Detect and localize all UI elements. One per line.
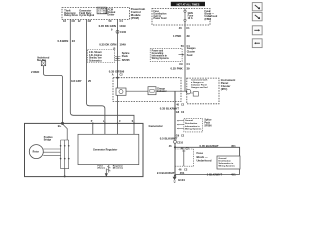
svg-text:Generator Regulator: Generator Regulator [93, 148, 117, 151]
svg-text:39: 39 [187, 34, 191, 38]
svg-text:1 PNK: 1 PNK [173, 34, 181, 38]
svg-text:SP206: SP206 [204, 124, 212, 127]
svg-text:Wiring Systems: Wiring Systems [152, 57, 170, 60]
svg-text:0.25 PNK: 0.25 PNK [171, 67, 183, 71]
svg-text:C1: C1 [120, 19, 124, 23]
svg-text:1 BLK/WHT: 1 BLK/WHT [207, 172, 223, 176]
svg-text:0.35 BLK/WHT: 0.35 BLK/WHT [200, 144, 219, 148]
svg-text:10 A: 10 A [188, 17, 193, 20]
svg-text:Feed: Feed [187, 54, 193, 57]
svg-text:C1: C1 [186, 26, 190, 30]
svg-text:451: 451 [231, 144, 236, 148]
svg-text:Distribution: Distribution [185, 122, 198, 125]
svg-text:Driver: Driver [108, 14, 115, 17]
svg-text:A: A [112, 73, 114, 76]
svg-text:(IPC): (IPC) [221, 87, 228, 91]
svg-text:Cluster: Cluster [187, 51, 195, 54]
svg-text:451: 451 [231, 172, 236, 176]
svg-text:C8: C8 [88, 19, 92, 23]
svg-text:Gauges and Ind: Gauges and Ind [191, 87, 208, 89]
svg-text:0.8 GRY: 0.8 GRY [71, 79, 82, 83]
svg-text:(Brushes): (Brushes) [113, 168, 123, 170]
svg-text:1049: 1049 [119, 24, 126, 28]
svg-text:Power Feed: Power Feed [154, 18, 167, 20]
svg-text:451: 451 [180, 171, 185, 175]
svg-text:2.2L Shown: 2.2L Shown [89, 52, 102, 54]
svg-text:Pack: Pack [122, 54, 129, 58]
svg-text:C210: C210 [177, 142, 184, 145]
svg-text:C8: C8 [72, 19, 76, 23]
svg-text:Underhood: Underhood [197, 159, 212, 163]
svg-text:Gauges: Gauges [187, 47, 196, 50]
svg-text:Wiring Systems: Wiring Systems [219, 165, 236, 168]
svg-text:C100: C100 [120, 31, 127, 34]
svg-text:Generator: Generator [149, 124, 164, 128]
svg-text:Similar, see: Similar, see [89, 58, 102, 60]
svg-text:C9: C9 [179, 62, 183, 66]
svg-text:(PCM): (PCM) [131, 16, 139, 20]
svg-text:HOT AT ALL TIMES: HOT AT ALL TIMES [177, 3, 200, 6]
svg-text:1049: 1049 [120, 43, 127, 47]
svg-text:2.0 BLK/WHT: 2.0 BLK/WHT [157, 171, 175, 175]
svg-text:Ground: Ground [185, 120, 194, 122]
svg-text:0.8 BRN: 0.8 BRN [58, 39, 69, 43]
svg-text:39: 39 [187, 67, 191, 71]
svg-text:Wiring Systems: Wiring Systems [185, 128, 202, 131]
svg-text:4.3L Engine: 4.3L Engine [89, 54, 103, 57]
svg-text:0.35 BLK/WHT: 0.35 BLK/WHT [160, 107, 179, 111]
svg-text:Relay Drive: Relay Drive [64, 14, 78, 17]
svg-text:2 RED: 2 RED [31, 70, 39, 74]
svg-text:C1: C1 [187, 62, 191, 66]
svg-text:Schematics: Schematics [89, 59, 102, 62]
svg-text:G104: G104 [178, 178, 185, 182]
svg-text:(FBU): (FBU) [205, 18, 212, 21]
svg-text:Indicator: Indicator [157, 90, 167, 93]
svg-text:25: 25 [88, 79, 92, 83]
svg-text:B: B [114, 47, 116, 51]
svg-text:SP205: SP205 [122, 58, 130, 62]
svg-text:C2: C2 [184, 168, 188, 172]
svg-text:0.5 BLK/WHT: 0.5 BLK/WHT [160, 137, 178, 141]
svg-text:G8: G8 [176, 111, 180, 114]
svg-text:Bus Bar: Bus Bar [37, 60, 46, 62]
svg-text:23: 23 [72, 39, 76, 43]
svg-text:Bridge: Bridge [44, 139, 52, 141]
svg-text:0.35 DK GRN: 0.35 DK GRN [99, 24, 116, 28]
svg-text:B+: B+ [58, 124, 62, 128]
svg-text:Information in: Information in [185, 125, 200, 128]
svg-text:Rotor: Rotor [33, 151, 39, 154]
svg-text:0.35 DK GRN: 0.35 DK GRN [99, 43, 116, 47]
svg-text:(Rotor): (Rotor) [98, 167, 106, 170]
svg-text:Cycle Signal: Cycle Signal [79, 14, 94, 17]
